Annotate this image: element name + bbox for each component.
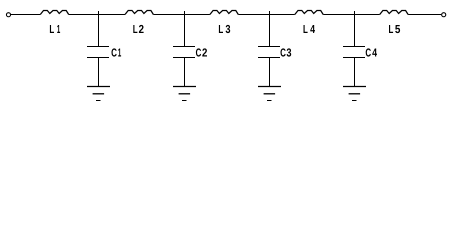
wire — [153, 14, 210, 16]
label C2 — [196, 48, 207, 56]
wire — [269, 58, 271, 87]
node N1 junction stub — [98, 11, 100, 47]
node N3 junction stub — [269, 11, 271, 47]
label L5 — [389, 25, 400, 33]
wire — [184, 58, 186, 87]
inductor L2 — [125, 11, 153, 15]
inductor L3 — [210, 11, 238, 15]
label L2 — [133, 25, 143, 33]
capacitor C1 — [87, 47, 109, 58]
wire — [98, 58, 100, 87]
wire — [11, 14, 40, 16]
label C3 — [281, 48, 292, 56]
label L4 — [304, 25, 316, 33]
wire — [69, 14, 125, 16]
wire — [354, 58, 356, 87]
label C4 — [366, 48, 377, 56]
node N2 junction stub — [184, 11, 186, 47]
ground — [343, 87, 366, 101]
capacitor C2 — [173, 47, 195, 58]
wire — [238, 14, 294, 16]
ground — [258, 87, 281, 101]
inductor L1 — [40, 11, 68, 15]
node N4 junction stub — [354, 11, 356, 47]
wire — [408, 14, 441, 16]
wire — [323, 14, 380, 16]
ground — [87, 87, 110, 101]
label C1 — [112, 48, 122, 56]
capacitor C4 — [343, 47, 365, 58]
terminal right — [442, 13, 446, 17]
capacitor C3 — [258, 47, 280, 58]
ground — [173, 87, 196, 101]
terminal left — [6, 13, 10, 17]
label L3 — [219, 25, 230, 33]
inductor L4 — [295, 11, 323, 15]
label L1 — [50, 25, 60, 33]
inductor L5 — [380, 11, 408, 15]
